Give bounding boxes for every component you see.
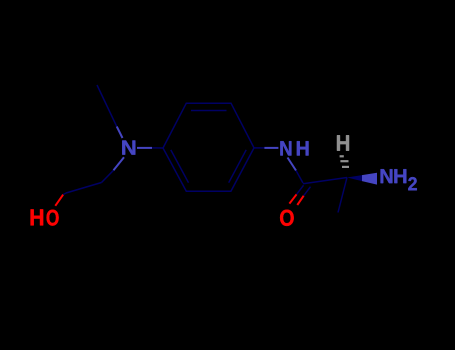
bond N-methyl blue half [117, 126, 123, 138]
hashed wedge dash 1 [340, 155, 344, 157]
ring double bond inner line lower-right [229, 150, 247, 183]
bond C1-C2 [66, 183, 102, 194]
bond ring-NH navy half [254, 147, 264, 149]
label N of amide NH [280, 141, 291, 155]
bond NH-carbonyl blue half [288, 158, 297, 171]
label stereo H [337, 135, 349, 150]
label H of NH2 [394, 169, 406, 183]
bond N-ring blue half [137, 147, 152, 149]
bond N-methyl navy half [97, 85, 117, 126]
ring double bond inner line lower-left [171, 150, 189, 183]
bond O-C1 red half [55, 195, 63, 206]
bond C2-N blue half [114, 157, 125, 170]
label H of HO [31, 209, 43, 225]
carbonyl C=O double bond inner red half [297, 196, 303, 205]
solid wedge to NH2 blue half [362, 173, 377, 185]
bond ring-NH blue half [264, 147, 278, 149]
bond O-C1 navy half [63, 193, 66, 195]
bond carbonyl-alphaC [303, 178, 347, 184]
bond C2-N navy half [102, 170, 114, 182]
carbonyl C=O double bond outer navy half [297, 185, 304, 194]
bond NH-carbonyl navy half [296, 171, 303, 184]
ring double bond inner line top [191, 110, 227, 112]
label O of HO [47, 210, 59, 226]
solid wedge to NH2 navy half [347, 175, 362, 181]
bond alphaC-methyl [338, 178, 347, 213]
label subscript 2 of NH2 [408, 177, 417, 190]
carbonyl C=O double bond outer red half [289, 194, 296, 203]
bond N-ring navy half [152, 147, 163, 149]
label N tertiary amine [122, 141, 135, 155]
benzene ring outline [163, 103, 254, 191]
label O carbonyl [280, 210, 294, 226]
carbonyl C=O double bond inner navy half [304, 187, 311, 196]
label H of amide NH [297, 141, 309, 155]
label N of NH2 [381, 169, 393, 183]
hashed wedge dash 3 [342, 166, 349, 168]
hashed wedge dash 2 [340, 160, 348, 162]
